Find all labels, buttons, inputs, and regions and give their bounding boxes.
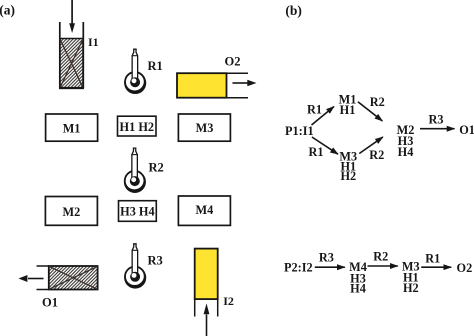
- svg-text:H3 H4: H3 H4: [120, 205, 155, 219]
- svg-text:R2: R2: [369, 148, 384, 162]
- node M3 H1 H2: [339, 149, 357, 183]
- wire M3 to O2: [421, 266, 451, 268]
- svg-text:I2: I2: [223, 294, 234, 308]
- svg-text:(b): (b): [285, 3, 302, 18]
- svg-text:H1: H1: [340, 103, 356, 117]
- robot R3: [124, 244, 146, 289]
- svg-text:M3: M3: [196, 121, 214, 135]
- node M4 H3 H4: [349, 260, 367, 295]
- svg-text:I1: I1: [88, 35, 99, 49]
- svg-text:R2: R2: [373, 249, 388, 263]
- wire O2 output arrow: [233, 80, 257, 87]
- svg-text:P2:I2: P2:I2: [284, 260, 313, 274]
- wire I2 input arrow: [204, 303, 210, 336]
- wire input arrow into I1: [69, 0, 75, 33]
- node M1 H1: [339, 93, 357, 117]
- svg-text:O2: O2: [457, 261, 473, 275]
- buffer H1 H2: [118, 116, 157, 136]
- svg-text:R2: R2: [370, 95, 385, 109]
- wire P1:I1 to M1: [312, 107, 335, 126]
- wire O1 output arrow: [19, 275, 44, 282]
- svg-text:O2: O2: [225, 55, 241, 69]
- svg-text:P1:I1: P1:I1: [285, 124, 314, 138]
- node M3 H1 H2 flow: [402, 260, 420, 296]
- svg-text:R1: R1: [425, 251, 440, 265]
- machine M2: [45, 197, 97, 226]
- wire M2 to O1: [420, 128, 455, 130]
- svg-text:R2: R2: [149, 160, 164, 174]
- svg-text:H1 H2: H1 H2: [120, 120, 155, 134]
- node O2 output buffer: [177, 73, 248, 98]
- wire P1:I1 to M3: [312, 137, 338, 154]
- svg-text:H2: H2: [403, 281, 419, 295]
- svg-text:M4: M4: [196, 203, 214, 217]
- svg-text:O1: O1: [42, 296, 58, 310]
- wire M4 to M3: [368, 265, 398, 267]
- svg-text:M2: M2: [63, 205, 81, 219]
- svg-text:R1: R1: [309, 145, 324, 159]
- wire M3 to M2: [359, 137, 383, 154]
- node I2 input buffer: [195, 249, 218, 317]
- robot R2: [124, 148, 146, 193]
- node O1 output buffer: [37, 266, 98, 290]
- svg-text:R1: R1: [307, 103, 322, 117]
- svg-text:R3: R3: [429, 113, 444, 127]
- robot R1: [124, 49, 146, 94]
- node I1 input buffer container: [59, 22, 84, 88]
- wire M1 to M2: [358, 102, 383, 121]
- svg-text:R1: R1: [148, 59, 163, 73]
- node M2 H3 H4: [397, 123, 415, 159]
- wire P2:I2 to M4: [315, 266, 345, 268]
- svg-text:(a): (a): [0, 2, 15, 17]
- svg-text:M1: M1: [63, 122, 81, 136]
- svg-text:R3: R3: [148, 253, 163, 267]
- machine M4: [178, 196, 230, 225]
- svg-text:H4: H4: [350, 282, 366, 296]
- machine M1: [46, 114, 98, 141]
- svg-text:H2: H2: [340, 169, 356, 183]
- svg-text:O1: O1: [459, 123, 474, 137]
- buffer H3 H4: [119, 201, 157, 222]
- machine M3: [178, 114, 230, 141]
- svg-text:R3: R3: [319, 250, 334, 264]
- svg-text:H4: H4: [398, 145, 414, 159]
